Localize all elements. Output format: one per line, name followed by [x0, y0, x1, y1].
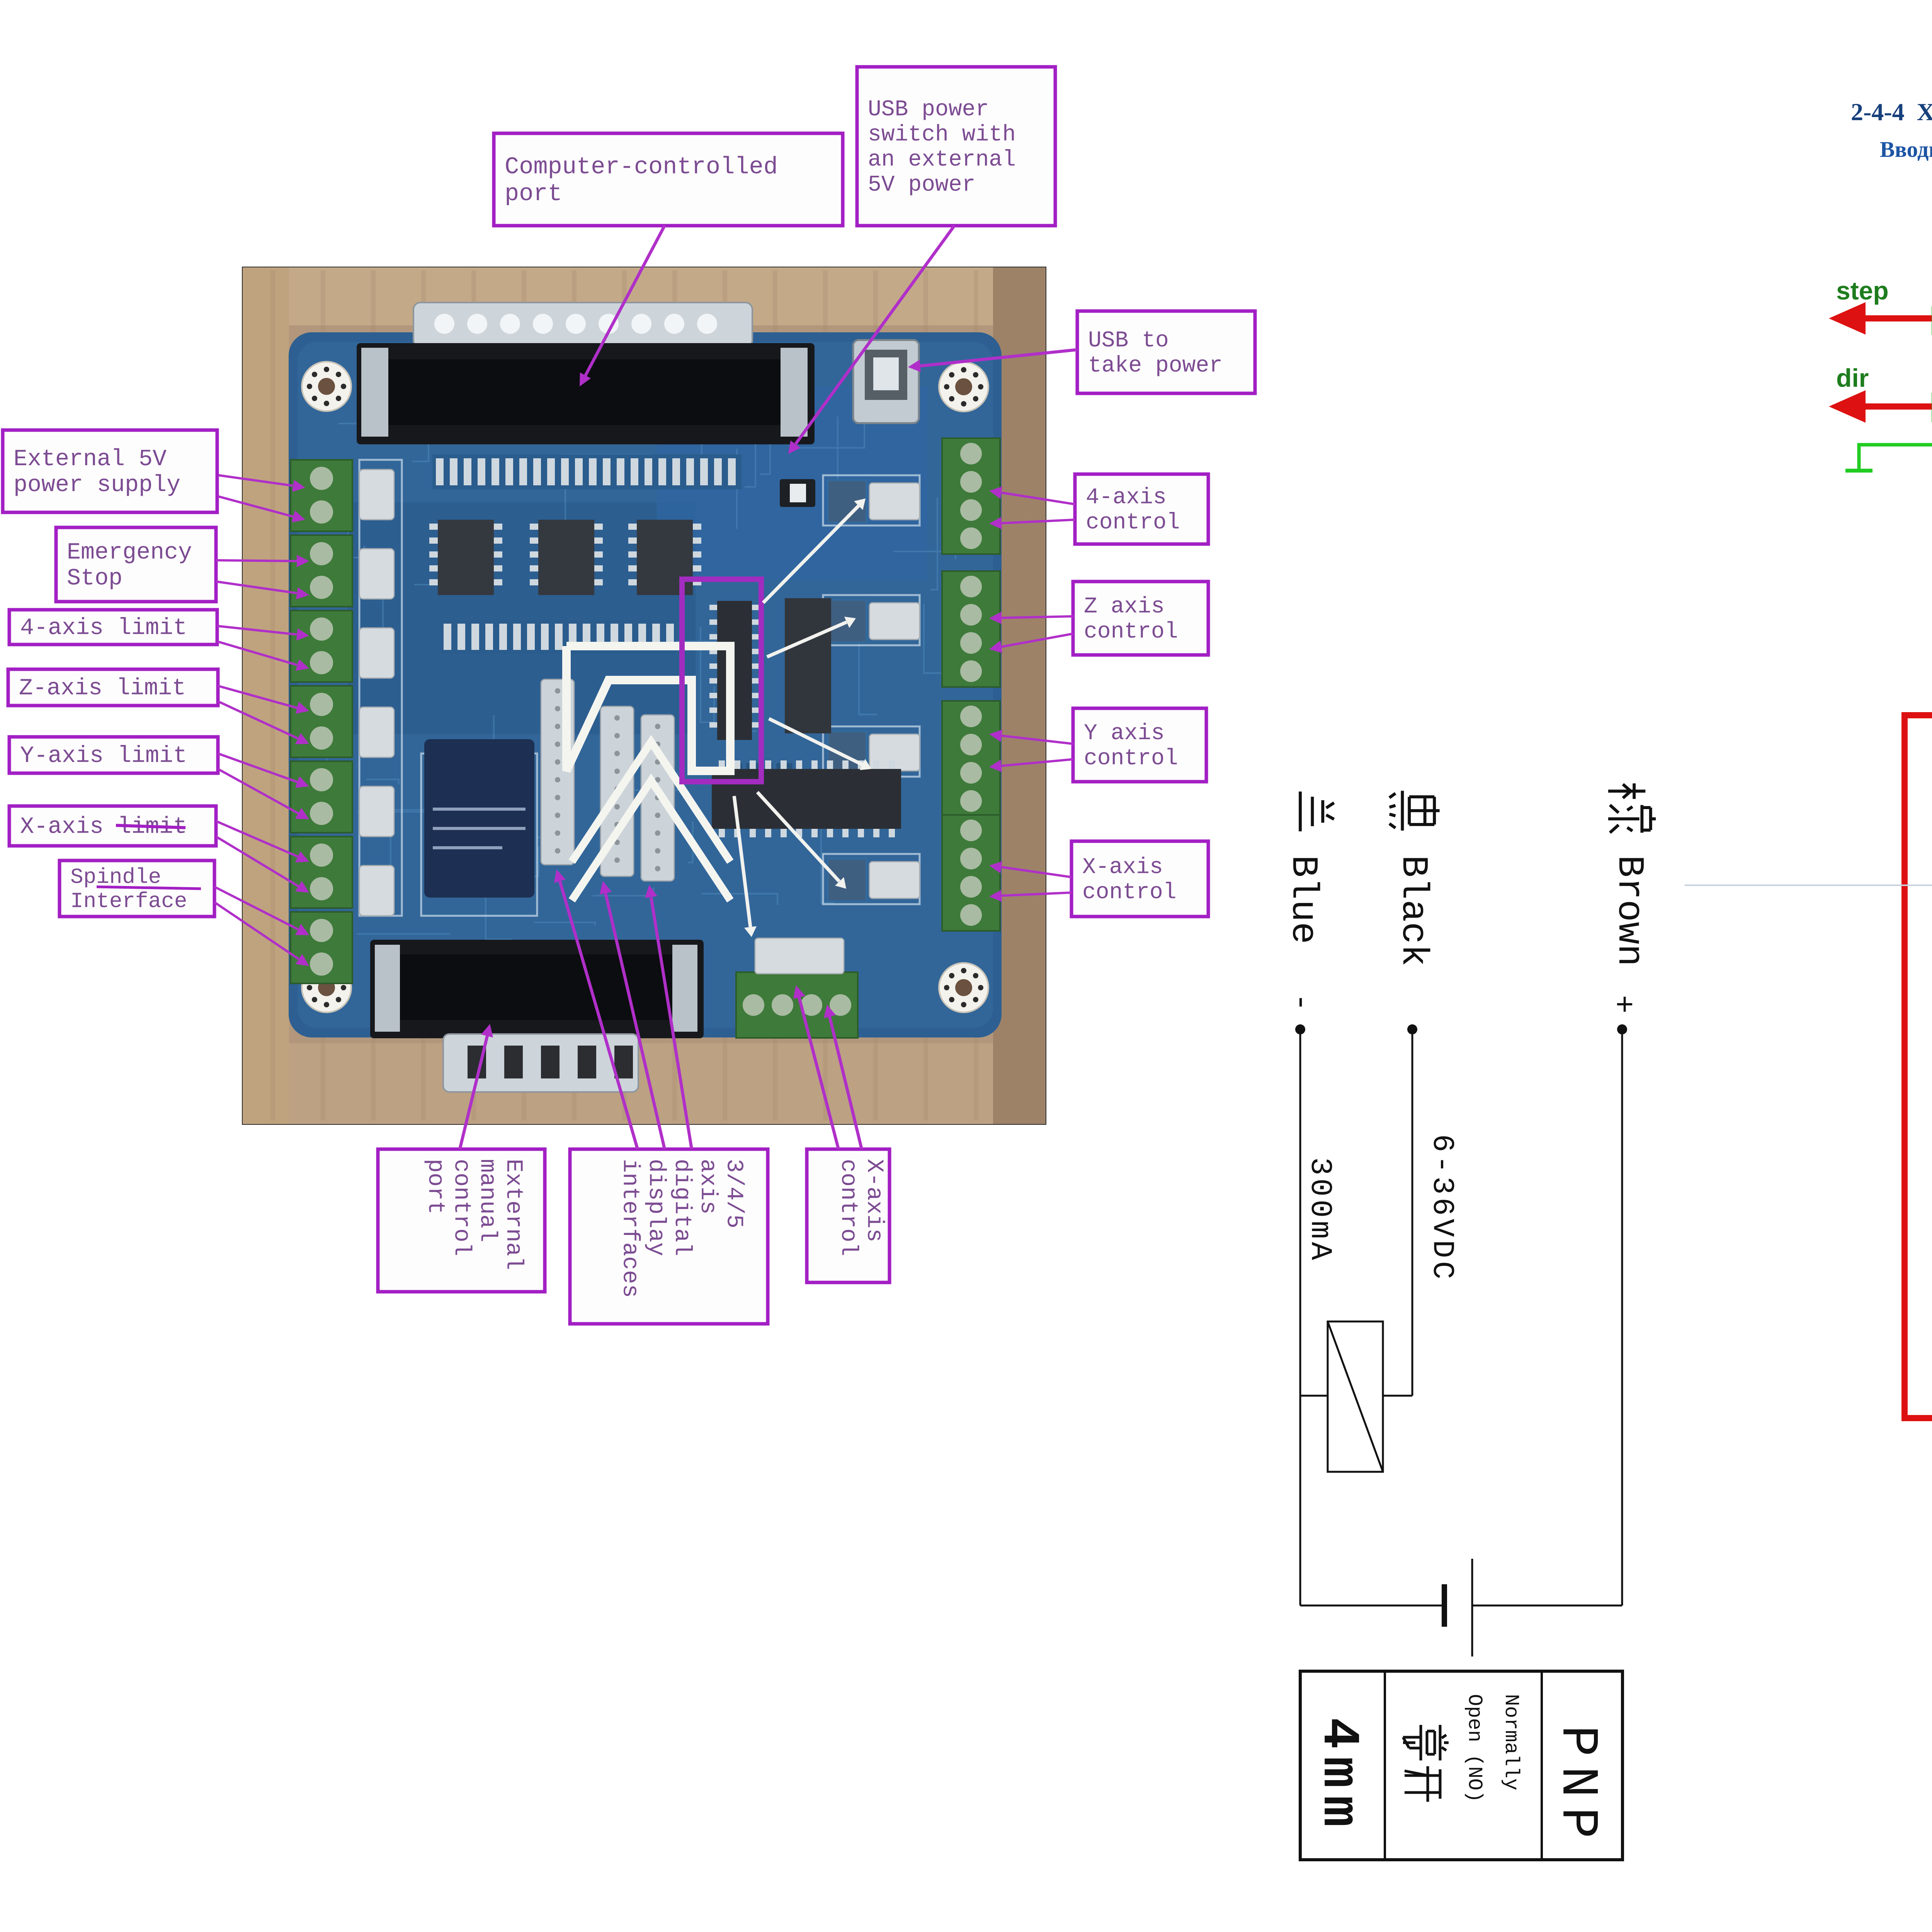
B-2 green terminal bottom right — [736, 972, 858, 1038]
svg-text:control: control — [1084, 619, 1178, 645]
label Blue — [1282, 855, 1324, 944]
svg-text:3/4/5: 3/4/5 — [720, 1159, 747, 1228]
svg-text:an external: an external — [868, 147, 1016, 172]
right green terminal blocks (axis controls) — [942, 438, 1000, 931]
pcb traces texture — [313, 359, 956, 1015]
mounting holes — [302, 362, 988, 1012]
table cell NO (chinese chang kai + Normally Open) — [1403, 1694, 1522, 1803]
svg-text:control: control — [1086, 510, 1180, 535]
chinese char hei (black) — [1389, 791, 1440, 830]
svg-text:control: control — [1082, 880, 1177, 905]
table cell 4mm — [1309, 1718, 1368, 1835]
svg-text:+: + — [1605, 995, 1640, 1014]
svg-text:External 5V: External 5V — [14, 446, 167, 473]
svg-text:4mm: 4mm — [1309, 1718, 1368, 1835]
smd resistor arrays — [736, 498, 867, 900]
label (rotated): 3/4/5 axis digital display interfaces — [570, 1149, 768, 1324]
label plus — [1605, 995, 1640, 1014]
svg-text:step: step — [1836, 276, 1889, 305]
battery symbol — [1300, 1559, 1622, 1656]
chinese char kai — [1405, 1766, 1440, 1802]
three SOIC ICs top row — [429, 520, 701, 595]
label: Computer-controlled port — [494, 133, 843, 226]
label Black — [1392, 855, 1434, 966]
svg-text:display: display — [643, 1159, 669, 1256]
purple annotation arrows from labels — [214, 226, 1077, 1149]
bottom DB15 connector — [370, 940, 704, 1092]
right white wire connectors — [827, 479, 920, 902]
svg-text:4-axis limit: 4-axis limit — [20, 615, 187, 641]
sensor wire Blue — [1295, 1024, 1305, 1605]
B-1 white connector bottom — [755, 938, 844, 974]
label (rotated): External manual control port — [378, 1149, 545, 1292]
svg-text:Z-axis limit: Z-axis limit — [19, 675, 186, 702]
title line 2 — [1880, 137, 1932, 162]
svg-text:Interface: Interface — [70, 889, 187, 914]
label step — [1836, 276, 1889, 305]
green wire to ground symbol — [1845, 445, 1932, 471]
svg-text:port: port — [422, 1159, 448, 1214]
svg-text:300mA: 300mA — [1303, 1157, 1337, 1263]
svg-text:X-axis: X-axis — [1082, 855, 1163, 880]
dir input arrow (red) — [1829, 390, 1932, 423]
DIP chip vertical near 5-axis box — [709, 601, 760, 740]
label: USB to take power — [1077, 311, 1255, 393]
svg-text:manual: manual — [474, 1159, 500, 1242]
scribble on X-axis limit — [116, 825, 185, 828]
large IC lower middle — [712, 760, 901, 837]
svg-text:switch with: switch with — [868, 122, 1016, 147]
white annotation arrows on board — [734, 498, 871, 937]
label: Emergency Stop — [56, 527, 216, 602]
svg-text:6-36VDC: 6-36VDC — [1425, 1134, 1459, 1282]
svg-text:Normally: Normally — [1500, 1694, 1522, 1791]
svg-text:dir: dir — [1836, 364, 1869, 392]
label: USB power switch with an external 5V power — [857, 67, 1055, 226]
svg-text:Blue: Blue — [1282, 855, 1324, 944]
relay (dark blue box) — [424, 739, 534, 898]
label: External 5V power supply — [3, 430, 217, 512]
sensor diagram (rotated): wire color labels — [1282, 783, 1656, 1014]
label: 4-axis control — [1075, 474, 1208, 544]
svg-text:Y-axis limit: Y-axis limit — [20, 743, 187, 769]
chinese char lan (blue) — [1300, 791, 1334, 831]
red left vertical — [1901, 712, 1908, 1418]
chinese char zong (brown) — [1608, 783, 1656, 833]
label Open (NO) — [1463, 1694, 1486, 1803]
step input arrow (red) — [1829, 302, 1932, 335]
svg-text:Black: Black — [1392, 855, 1434, 966]
USB power switch component — [780, 479, 815, 507]
DB25 parallel port connector (top) — [357, 303, 815, 444]
label: Z axis control — [1073, 582, 1208, 655]
three white vertical header connectors — [541, 679, 674, 881]
svg-text:External: External — [500, 1159, 526, 1270]
middle pin header row — [440, 620, 676, 654]
photo of CNC breakout board — [243, 267, 1046, 1124]
svg-text:Open (NO): Open (NO) — [1463, 1694, 1486, 1803]
red bottom horizontal — [1901, 1415, 1932, 1421]
left white wire connectors — [359, 469, 394, 916]
svg-text:Stop: Stop — [67, 566, 122, 592]
sensor spec table — [1300, 1671, 1622, 1860]
svg-text:5V power: 5V power — [868, 172, 975, 197]
svg-text:USB power: USB power — [868, 97, 989, 122]
load box with diagonal (sensor output) — [1300, 1321, 1412, 1472]
svg-text:PNP: PNP — [1548, 1725, 1607, 1848]
svg-text:Y axis: Y axis — [1084, 721, 1165, 746]
svg-text:-: - — [1283, 993, 1318, 1012]
faint scan line — [1685, 884, 1932, 886]
label Brown — [1608, 855, 1650, 966]
label: Y axis control — [1073, 708, 1206, 782]
label: Z-axis limit — [8, 669, 218, 706]
svg-text:2-4-4 Характеристики управляю: 2-4-4 Характеристики управляющих вводов/… — [1851, 98, 1932, 126]
label: X-axis limit — [9, 806, 216, 846]
svg-text:power supply: power supply — [14, 472, 180, 498]
chinese char chang — [1403, 1725, 1449, 1760]
label minus — [1283, 993, 1318, 1012]
svg-text:control: control — [835, 1159, 861, 1256]
white silkscreen boxes — [359, 460, 920, 916]
mini-USB socket (top right) — [853, 340, 919, 423]
table cell PNP — [1548, 1725, 1607, 1848]
svg-text:USB to: USB to — [1088, 328, 1169, 353]
label (rotated): X-axis control — [807, 1149, 889, 1282]
label: Spindle Interface — [60, 861, 214, 917]
svg-text:4-axis: 4-axis — [1086, 485, 1167, 510]
title line 1 — [1851, 98, 1932, 126]
label Normally — [1500, 1694, 1522, 1791]
svg-text:X-axis: X-axis — [861, 1159, 887, 1242]
svg-text:Z axis: Z axis — [1084, 594, 1165, 619]
label 6-36VDC — [1425, 1134, 1459, 1282]
blue PCB board — [289, 332, 1002, 1037]
sensor wire Brown — [1617, 1024, 1627, 1605]
label: Y-axis limit — [9, 737, 218, 773]
label: 4-axis limit — [9, 610, 217, 645]
svg-text:Emergency: Emergency — [67, 539, 192, 566]
svg-text:digital: digital — [668, 1159, 695, 1256]
label 300mA — [1303, 1157, 1337, 1263]
svg-text:axis: axis — [694, 1159, 721, 1214]
svg-text:Spindle: Spindle — [70, 865, 161, 889]
svg-text:port: port — [505, 180, 562, 207]
label: X-axis control — [1071, 841, 1208, 917]
sensor wire Black — [1407, 1024, 1417, 1396]
top pin header row — [432, 454, 742, 489]
svg-text:control: control — [448, 1159, 474, 1256]
scribble on Spindle — [97, 887, 201, 889]
svg-text:take power: take power — [1088, 353, 1223, 378]
label dir — [1836, 364, 1869, 392]
left green terminal blocks column — [291, 460, 352, 983]
svg-text:Brown: Brown — [1608, 855, 1650, 966]
svg-text:control: control — [1084, 746, 1178, 771]
purple outline around 5-axis chip — [682, 579, 761, 782]
IC right middle — [785, 598, 831, 733]
white K logo watermark — [566, 646, 730, 900]
red wire +24VIN — [1905, 712, 1932, 718]
svg-text:Computer-controlled: Computer-controlled — [505, 153, 778, 180]
svg-text:Вводы/выводы управления и внеш: Вводы/выводы управления и внешние сигнал… — [1880, 137, 1932, 162]
svg-text:interfaces: interfaces — [617, 1159, 643, 1298]
